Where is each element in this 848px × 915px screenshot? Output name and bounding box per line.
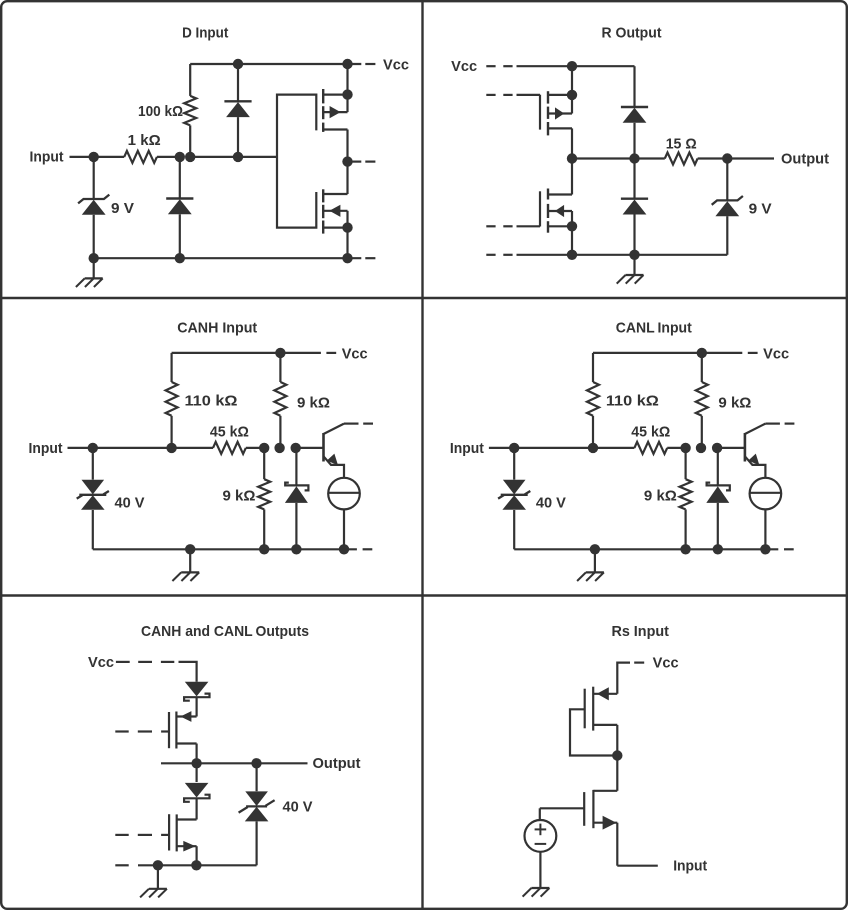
NMOS Q6 gate bar (168, 814, 170, 850)
dashed Vcc lead (486, 65, 512, 67)
NMOS Q4 channel (547, 189, 549, 233)
value label 110 k&#937; (CANL) (606, 392, 659, 409)
svg-text:D Input: D Input (182, 25, 228, 42)
wire ground rail (R Output) (517, 254, 728, 256)
PMOS Q3 body arrow stub (548, 107, 572, 119)
node dot ground rail diode (R Output) (629, 250, 639, 260)
ground (CANH) (172, 549, 199, 581)
dashed Vcc stub (CANH) (326, 352, 336, 354)
svg-text:CANL Input: CANL Input (616, 319, 692, 336)
ground (76, 258, 103, 287)
title: CANH and CANL Outputs (141, 623, 309, 640)
pin label Output (Outputs) (313, 755, 361, 772)
NMOS Q4 body arrow stub (548, 205, 572, 217)
transistor NPN base bar (CANL) (744, 433, 747, 462)
PMOS Q7 drain stub (593, 724, 617, 726)
node dot output rail PMOS (191, 758, 201, 768)
node dot mid rail / diode (629, 153, 639, 163)
wire Vcc corner (Rs) (617, 663, 630, 694)
svg-text:Output: Output (313, 755, 361, 772)
NPN collector (CANL) (745, 424, 780, 434)
wire node to NMOS drain (Rs) (616, 756, 618, 791)
node dot Vcc rail (CANL) (697, 348, 707, 358)
net label Vcc (CANH) (342, 345, 368, 362)
title: CANL&#8201;Input (616, 319, 692, 336)
svg-text:Vcc: Vcc (653, 655, 679, 672)
PMOS Q7 channel (592, 687, 594, 731)
NMOS Q4 drain stub (548, 193, 572, 195)
svg-text:45 kΩ: 45 kΩ (210, 423, 249, 440)
svg-text:CANH and CANL Outputs: CANH and CANL Outputs (141, 623, 309, 640)
PMOS Q3 channel (547, 91, 549, 135)
value label 40 V (Outputs) (283, 798, 313, 815)
wire current source to ground rail (CANH) (343, 509, 345, 549)
svg-text:CANH Input: CANH Input (177, 319, 257, 336)
dashed ground rail stub (CANL) (784, 548, 794, 550)
wire Vcc rail (CANL) (593, 352, 742, 354)
node dot PMOS source (R Output) (567, 90, 577, 100)
PMOS Q1 body arrow stub (323, 106, 347, 118)
wire PMOS drain to mid rail (571, 128, 573, 158)
svg-text:Vcc: Vcc (88, 654, 114, 671)
resistor 100 k&#937; (184, 64, 196, 157)
node dot rail ground (CANL) (590, 544, 600, 554)
dashed stub ground rail (365, 257, 375, 259)
title: CANH Input (177, 319, 257, 336)
value label 45 k&#937; (CANH) (210, 423, 249, 440)
svg-text:9 V: 9 V (749, 200, 772, 217)
transistor NPN base bar (CANH) (322, 433, 325, 462)
node dot 9k lower junction (CANH) (259, 443, 269, 453)
NPN emitter (CANL) (745, 454, 766, 478)
dashed NMOS gate lead (Outputs) (115, 834, 169, 836)
diode input clamp low (166, 157, 193, 258)
value label 9 k&#937; upper (CANL) (718, 394, 751, 411)
wire Vcc rail (R Output) (517, 65, 635, 67)
svg-text:Input: Input (673, 858, 707, 875)
PMOS Q1 drain stub (323, 128, 347, 130)
wire 1k to node (157, 156, 180, 158)
resistor 110 k&#937; (CANL) (587, 353, 599, 448)
zener diode clamp (CANL) (706, 448, 730, 549)
svg-text:9 kΩ: 9 kΩ (297, 394, 330, 411)
svg-text:40 V: 40 V (283, 798, 313, 815)
TVS 40 V (CANL) (498, 448, 530, 549)
node dot diode junction (175, 152, 185, 162)
node dot ground rail ground (Outputs) (153, 860, 163, 870)
PMOS Q5 channel (175, 712, 177, 749)
resistor 45 k&#937; (CANL) (634, 442, 667, 454)
pin label Input (CANL) (450, 440, 484, 457)
node dot ground rail diode (175, 253, 185, 263)
node dot Vcc rail / clamp diode (233, 59, 243, 69)
resistor 45 k&#937; (CANH) (213, 442, 246, 454)
svg-text:9 kΩ: 9 kΩ (718, 394, 751, 411)
voltage source (Rs) (525, 820, 557, 852)
node dot zener junction (CANH) (291, 443, 301, 453)
transistor PMOS Q1 channel (322, 89, 324, 132)
zener diode 9 V (R Output) (712, 159, 743, 255)
node dot ground rail NMOS (Outputs) (191, 860, 201, 870)
resistor 9 k&#937; upper (CANL) (696, 353, 708, 448)
NPN emitter (CANH) (324, 454, 345, 478)
TVS 40 V (Outputs) (239, 763, 275, 865)
value label 9 V (R Output) (749, 200, 772, 217)
NPN collector (CANH) (324, 424, 359, 434)
resistor 9 k&#937; lower (CANH) (258, 448, 270, 549)
wire node to base (CANH) (296, 447, 324, 449)
node dot ground rail NMOS (567, 250, 577, 260)
title: D Input (182, 25, 228, 42)
wire Input to 110k node (CANH) (93, 447, 172, 449)
dashed Vcc stub (Rs) (634, 661, 644, 663)
wire Vcc rail (190, 63, 361, 65)
wire NMOS source to ground rail (346, 211, 348, 258)
PMOS Q7 gate feedback loop (570, 709, 617, 755)
PMOS Q3 drain stub (548, 127, 572, 129)
pin label Input (CANH) (29, 440, 63, 457)
resistor 1 k&#937; (124, 151, 157, 163)
pin label Input (Rs) (673, 858, 707, 875)
wire node to gate box (190, 156, 277, 158)
node dot mid rail left (567, 153, 577, 163)
node dot 9k upper junction (CANH) (274, 443, 284, 453)
zener diode to NMOS drain (184, 763, 209, 802)
zener diode to PMOS source (184, 682, 209, 701)
wire PMOS drain riser (Rs) (616, 725, 618, 756)
ground (Outputs) (140, 865, 167, 897)
NMOS Q2 body arrow stub (323, 205, 347, 217)
svg-text:Rs Input: Rs Input (611, 623, 669, 640)
value label 9 V (111, 200, 134, 217)
wire 45k to node (CANH) (246, 447, 264, 449)
value label 9 k&#937; upper (CANH) (297, 394, 330, 411)
svg-text:Vcc: Vcc (763, 345, 789, 362)
svg-text:110 kΩ: 110 kΩ (606, 392, 659, 409)
svg-text:Input: Input (450, 440, 484, 457)
node dot 110k junction (CANH) (166, 443, 176, 453)
resistor 9 k&#937; lower (CANL) (680, 448, 692, 549)
value label 45 k&#937; (CANL) (631, 423, 670, 440)
PMOS Q1 source stub (323, 93, 347, 95)
node dot 9k upper junction (CANL) (696, 443, 706, 453)
wire ground rail (94, 257, 362, 259)
diode output clamp low (621, 159, 648, 255)
wire NMOS drain riser (571, 159, 573, 195)
wire output lead (727, 157, 774, 159)
PMOS Q5 drain stub (176, 742, 196, 744)
net label Vcc (Outputs) (88, 654, 114, 671)
wire PMOS source to Vcc rail (346, 64, 348, 112)
value label 110 k&#937; (CANH) (185, 392, 238, 409)
NMOS Q8 gate bar (583, 792, 585, 826)
NMOS Q2 drain stub (323, 193, 347, 195)
svg-text:Input: Input (30, 148, 64, 165)
node dot output rail TVS (251, 758, 261, 768)
wire PMOS source riser (571, 66, 573, 113)
NMOS Q4 source stub (548, 225, 572, 227)
PMOS Q3 source stub (548, 94, 572, 96)
wire NMOS gate lead (R Output) (517, 225, 541, 227)
resistor 15 &#937; (665, 153, 698, 165)
wire current source to ground rail (CANL) (764, 509, 766, 549)
NMOS Q8 gate lead (540, 808, 584, 820)
dashed ground rail lead (486, 254, 512, 256)
svg-text:100 kΩ: 100 kΩ (138, 103, 183, 120)
dashed PMOS gate lead (Outputs) (115, 730, 169, 732)
svg-text:1 kΩ: 1 kΩ (128, 132, 161, 149)
wire voltage source to ground (Rs) (539, 852, 541, 888)
NMOS Q8 channel (592, 790, 594, 828)
wire NMOS source to ground rail (R Output) (571, 211, 573, 255)
node dot diode-connected PMOS (612, 750, 622, 760)
svg-text:R Output: R Output (602, 25, 662, 42)
zener diode 9 V (78, 157, 109, 258)
wire PMOS drain to output rail (196, 744, 198, 764)
node dot rail 9k (CANH) (259, 544, 269, 554)
NMOS Q2 source stub (323, 227, 347, 229)
wire to 45k (CANH) (172, 447, 213, 449)
svg-text:9 V: 9 V (111, 200, 134, 217)
node dot PMOS source (342, 89, 352, 99)
title: R Output (602, 25, 662, 42)
transistor NMOS Q2 channel (322, 189, 324, 233)
wire Input to 110k node (CANL) (514, 447, 593, 449)
wire 15ohm to output node (698, 157, 728, 159)
wire Input lead (CANL) (489, 447, 514, 449)
TVS 40 V (CANH) (77, 448, 109, 549)
NMOS Q6 channel (176, 814, 178, 851)
wire ground rail (Outputs) (138, 864, 257, 866)
svg-text:Vcc: Vcc (451, 58, 477, 75)
zener diode clamp (CANH) (285, 448, 309, 549)
node dot output (722, 153, 732, 163)
net label Vcc (CANL) (763, 345, 789, 362)
NMOS Q6 source stub with body arrow (177, 841, 197, 852)
svg-text:45 kΩ: 45 kΩ (631, 423, 670, 440)
node dot 110k junction (CANL) (588, 443, 598, 453)
current source (CANL) (750, 478, 782, 510)
title: Rs Input (611, 623, 669, 640)
diode output clamp to Vcc (621, 66, 648, 158)
dashed collector stub (CANL) (785, 423, 795, 425)
svg-text:9 kΩ: 9 kΩ (223, 487, 256, 504)
svg-text:Output: Output (781, 150, 829, 167)
node dot Vcc rail / PMOS source (342, 59, 352, 69)
net label Vcc (Rs) (653, 655, 679, 672)
ground (R Output) (617, 255, 644, 284)
node dot 9k lower junction (CANL) (680, 443, 690, 453)
node dot gate output (342, 156, 352, 166)
node dot Vcc rail (CANH) (275, 348, 285, 358)
resistor 110 k&#937; (CANH) (166, 353, 178, 448)
node dot rail ground (CANH) (185, 544, 195, 554)
svg-text:Input: Input (29, 440, 63, 457)
NMOS Q4 gate bar (539, 191, 541, 226)
value label 40 V (CANL) (536, 494, 566, 511)
value label 9 k&#937; lower (CANL) (644, 487, 677, 504)
node dot 100k junction (185, 152, 195, 162)
node dot rail zener (CANL) (713, 544, 723, 554)
node dot ground rail right (342, 253, 352, 263)
svg-text:9 kΩ: 9 kΩ (644, 487, 677, 504)
NMOS Q8 source stub with body arrow (593, 816, 617, 830)
wire NMOS source to ground rail (196, 846, 198, 865)
dashed PMOS gate lead (486, 94, 512, 96)
NMOS Q6 drain stub (177, 818, 197, 820)
net label Vcc (383, 56, 409, 73)
node dot zener junction (CANL) (712, 443, 722, 453)
PMOS Q7 gate bar (584, 689, 586, 729)
wire zener to NMOS drain (196, 798, 198, 819)
svg-text:Vcc: Vcc (383, 56, 409, 73)
ground (CANL) (577, 549, 604, 581)
node dot Input (CANL) (509, 443, 519, 453)
svg-text:Vcc: Vcc (342, 345, 368, 362)
wire ground rail (CANL) (514, 548, 778, 550)
wire node to base (CANL) (717, 447, 745, 449)
value label 15 &#937; (666, 136, 697, 153)
svg-text:110 kΩ: 110 kΩ (185, 392, 238, 409)
node dot rail zener (CANH) (291, 544, 301, 554)
node dot Input / 9V zener (89, 152, 99, 162)
net label Vcc (R Output) (451, 58, 477, 75)
dashed Vcc stub (CANL) (748, 352, 758, 354)
node dot rail current source (CANL) (760, 544, 770, 554)
node dot rail current source (CANH) (339, 544, 349, 554)
PMOS Q5 source stub with body arrow (176, 711, 196, 722)
wire Vcc rail (CANH) (172, 352, 321, 354)
wire gate output stub (348, 161, 362, 163)
wire PMOS drain to output node (346, 130, 348, 195)
node dot rail 9k (CANL) (680, 544, 690, 554)
wire mid rail (572, 157, 665, 159)
PMOS Q7 source stub with body arrow (593, 687, 617, 700)
wire NMOS source to input (Rs) (616, 823, 618, 866)
PMOS Q5 gate bar (168, 712, 170, 748)
svg-text:15 Ω: 15 Ω (666, 136, 697, 153)
wire Vcc corner (Outputs) (179, 662, 197, 682)
wire Input to 1k resistor (94, 156, 125, 158)
dashed collector stub (CANH) (363, 423, 373, 425)
pin label Input (30, 148, 64, 165)
dashed stub right of Vcc rail (365, 63, 375, 65)
wire output rail (161, 762, 308, 764)
svg-text:40 V: 40 V (536, 494, 566, 511)
svg-text:40 V: 40 V (115, 494, 145, 511)
dashed ground rail stub (CANH) (363, 548, 373, 550)
current source (CANH) (328, 478, 360, 510)
node dot NMOS source (342, 222, 352, 232)
pin label Output (781, 150, 829, 167)
value label 9 k&#937; lower (CANH) (223, 487, 256, 504)
wire Input lead (70, 156, 94, 158)
diode input clamp to Vcc (224, 64, 251, 157)
dashed Vcc lead (Outputs) (116, 661, 174, 663)
dashed stub gate output (365, 161, 375, 163)
wire PMOS gate lead (517, 94, 541, 96)
wire 45k to node (CANL) (667, 447, 685, 449)
wire Input lead (CANH) (68, 447, 93, 449)
ground (Rs) (523, 888, 550, 897)
dashed NMOS gate lead (R Output) (486, 225, 512, 227)
node dot Input (CANH) (88, 443, 98, 453)
wire to 45k (CANL) (593, 447, 634, 449)
node dot Vcc / PMOS source riser (567, 61, 577, 71)
value label 100 k&#937; (138, 103, 183, 120)
PMOS Q3 gate bar (539, 95, 541, 130)
node dot NMOS source (R Output) (567, 221, 577, 231)
wire ground rail (CANH) (93, 548, 357, 550)
dashed ground rail lead (Outputs) (115, 864, 128, 866)
value label 1 k&#937; (128, 132, 161, 149)
value label 40 V (CANH) (115, 494, 145, 511)
wire zener to PMOS source (196, 697, 198, 716)
NMOS Q8 drain stub (593, 790, 617, 792)
resistor 9 k&#937; upper (CANH) (274, 353, 286, 448)
node dot ground rail left (89, 253, 99, 263)
wire input lead (Rs) (617, 865, 658, 867)
inverter gate box (277, 95, 316, 228)
node dot clamp diode / input line (233, 152, 243, 162)
